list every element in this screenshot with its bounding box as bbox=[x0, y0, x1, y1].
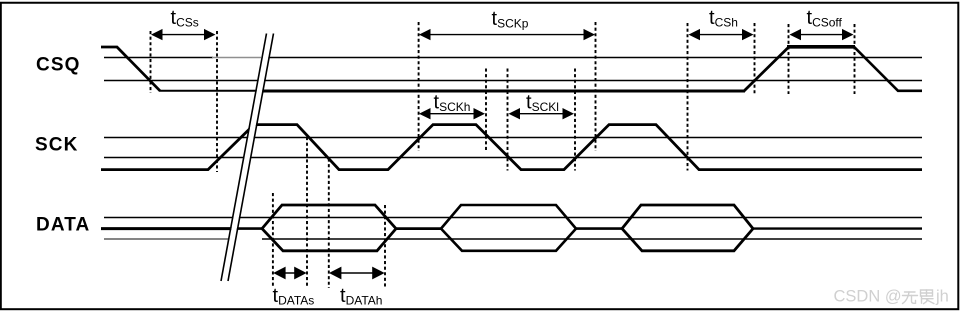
svg-text:CSQ: CSQ bbox=[36, 54, 80, 75]
svg-text:jh: jh bbox=[935, 288, 949, 306]
svg-text:DATA: DATA bbox=[36, 215, 90, 236]
svg-text:CSDN @: CSDN @ bbox=[834, 288, 902, 306]
svg-text:SCK: SCK bbox=[35, 134, 78, 155]
